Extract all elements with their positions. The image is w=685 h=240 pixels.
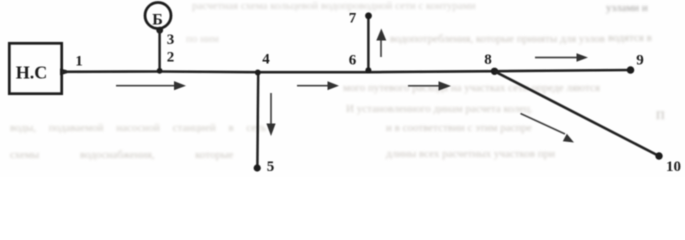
flow arrow 7 (along branch 8-10) [521,114,575,143]
svg-text:4: 4 [262,52,270,68]
flow arrow 1 (below segment 1-2) [116,81,186,90]
svg-text:мого путевого расхода на у: мого путевого расхода на участках сети о… [343,82,600,94]
svg-text:5: 5 [267,159,275,175]
node 8 junction [491,68,498,75]
faint bleed-through text row 7 [10,148,555,161]
svg-text:9: 9 [636,52,644,68]
flow arrow 5 (up, branch 6-7) [376,29,386,58]
svg-text:и в соответствии с этим р: и в соответствии с этим распре [386,122,532,134]
svg-text:7: 7 [349,11,357,27]
svg-text:узлами и: узлами и [606,2,648,14]
svg-text:3: 3 [167,32,175,48]
faint bleed-through text row 2 [186,32,652,45]
node 3 dot [156,27,163,34]
faint bleed-through text row 1 (top) [192,0,648,14]
node 7 dot [365,12,372,19]
pump station box Н.С [9,43,61,93]
node 9 dot [627,66,635,74]
svg-text:6: 6 [349,53,357,69]
node 5 dot [254,164,261,171]
svg-text:1: 1 [75,54,83,70]
svg-text:по ним: по ним [186,33,219,45]
node labels [75,11,681,176]
svg-text:водятся в: водятся в [608,32,652,44]
svg-text:схемы водоснабжения, которые: схемы водоснабжения, которые [10,149,233,161]
svg-text:Б: Б [152,12,163,29]
wire 4-5 [256,72,259,167]
faint bleed-through text row 4 [343,82,600,94]
svg-text:водопотребления, которые при: водопотребления, которые приняты для узл… [390,33,605,45]
svg-text:10: 10 [666,159,681,175]
svg-text:П: П [656,108,665,122]
wire 8-10 [495,71,660,156]
svg-text:И установленного динам расч: И установленного динам расчета колец. [346,103,533,115]
svg-text:8: 8 [484,52,492,68]
box outlet nub [60,69,67,76]
faint bleed-through text row 6 [10,122,532,134]
svg-text:воды, подаваемой насосной с: воды, подаваемой насосной станцией в сет… [10,122,266,134]
node 6 junction [365,67,371,73]
wire 3-2 [158,30,161,72]
svg-text:расчетная схема кольцевой водо: расчетная схема кольцевой водопроводной … [192,0,476,12]
main line 1-2-4-6-8-9 [62,70,630,72]
flow arrow 6 (above segment 8-9) [535,53,588,62]
flow arrow 4 (down, branch 4-5) [266,93,275,136]
svg-text:Н.С: Н.С [16,63,48,83]
svg-text:2: 2 [167,50,175,66]
node 4 junction [255,70,261,76]
flow arrow 2 (below segment 4-6) [297,81,339,90]
water tower circle Б [145,3,171,29]
wire 6-7 [367,16,370,72]
svg-text:длины всех расчетных участк: длины всех расчетных участков при [386,148,555,160]
node 10 dot [655,152,662,159]
flow arrow 3 (below segment 6-8) [408,81,451,90]
node 2 junction [157,68,163,74]
faint bleed-through text row 5 [346,103,665,122]
